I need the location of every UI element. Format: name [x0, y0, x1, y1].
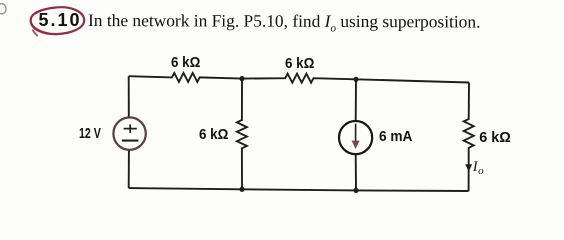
resistor R4 6k (right, vertical) with wires: [464, 83, 474, 192]
junction dot bottom of current source branch: [353, 188, 358, 193]
current source I1 6mA circle: [339, 121, 372, 154]
voltage source minus bar: [122, 140, 139, 142]
wire: left branch below source: [128, 150, 130, 188]
problem number 5.10: [39, 10, 82, 31]
label 6 mA: [379, 129, 412, 145]
red ellipse around problem number 5.10: [31, 7, 84, 34]
output current Io arrowhead on right branch: [465, 164, 472, 171]
label 12 V: [79, 126, 101, 142]
voltage source V1 12V circle: [113, 117, 145, 149]
node B junction dot (top): [353, 77, 358, 82]
voltage source plus sign: [124, 124, 137, 132]
resistor R3 6k (middle, vertical) with connecting wire: [237, 79, 247, 190]
wire: node B to top-right corner: [356, 79, 469, 82]
wire: left branch above source: [128, 76, 130, 117]
label 6 kOhm (R2): [285, 56, 314, 72]
stray gray mark top-left: [0, 4, 6, 14]
current source arrowhead (dark red): [352, 141, 360, 149]
wire: bottom rail: [129, 188, 469, 191]
red ellipse second pen pass (bottom-left): [31, 8, 55, 34]
label 6 kOhm (R1): [171, 55, 200, 71]
wire: current source branch top: [355, 79, 357, 121]
label 6 kOhm (R3): [199, 127, 228, 143]
title text: [88, 10, 481, 35]
junction dot bottom of R3 branch: [239, 187, 244, 192]
wire: top-left corner to node A (with resistor R1 zigzag): [129, 73, 474, 191]
wire: current source branch bottom: [355, 155, 357, 191]
red ellipse tail flick: [33, 30, 37, 35]
label 6 kOhm (R4): [479, 130, 511, 146]
current source arrow shaft: [355, 124, 357, 143]
resistor R2 6k (top middle, horizontal): [242, 74, 356, 83]
label Io: [473, 159, 484, 178]
node A junction dot (top): [239, 76, 244, 81]
resistor R1 6k (top left, horizontal): [129, 73, 242, 82]
